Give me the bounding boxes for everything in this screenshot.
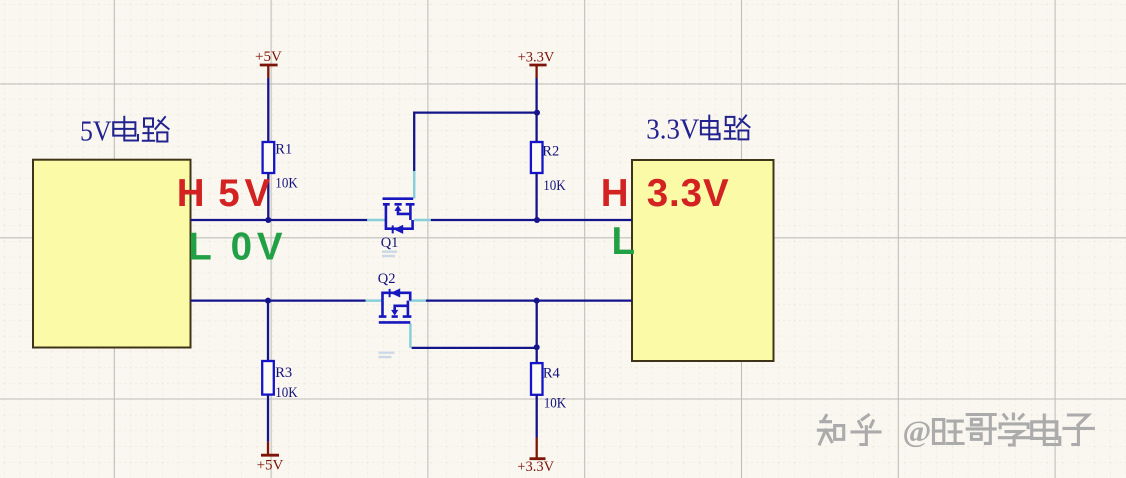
svg-text:L: L — [612, 220, 636, 263]
svg-text:+5V: +5V — [255, 49, 282, 65]
svg-text:10K: 10K — [275, 385, 298, 401]
svg-text:5V: 5V — [218, 172, 270, 215]
svg-text:Q2: Q2 — [378, 271, 396, 287]
wire: +3.3V rail down to R2 — [535, 78, 537, 142]
svg-text:5V: 5V — [80, 115, 112, 147]
wire highlight cyan segments top net — [367, 219, 430, 222]
Q2 faint part number — [379, 352, 395, 359]
svg-text:R1: R1 — [275, 142, 292, 158]
power +3.3V top symbol — [518, 49, 555, 78]
power +3.3V bottom symbol — [517, 438, 554, 475]
resistor R3 — [262, 361, 298, 401]
wire: bottom signal net, box1 to Q2 — [191, 299, 366, 301]
svg-text:+3.3V: +3.3V — [518, 49, 555, 65]
resistor R4 — [531, 363, 567, 412]
wire: Q1 gate to +3.3V rail — [414, 113, 537, 171]
power +5V top symbol — [255, 49, 282, 78]
wire: bottom net to R3 — [267, 301, 269, 361]
wire highlight cyan segments bottom net — [366, 299, 426, 302]
node junction R2/top net — [534, 217, 540, 223]
title 3.3V电路 — [646, 114, 749, 146]
node junction Q2 gate line / R4 — [534, 344, 540, 350]
svg-text:Q1: Q1 — [381, 235, 399, 251]
node junction R1/top net — [265, 217, 271, 223]
resistor R1 — [263, 142, 299, 192]
transistor Q1 (N-MOSFET) — [383, 199, 415, 234]
svg-text:+5V: +5V — [257, 457, 284, 473]
wire highlight cyan Q1 gate lead — [413, 171, 416, 199]
wire: +5V to R1 — [267, 78, 269, 142]
svg-text:0V: 0V — [231, 226, 283, 269]
svg-text:R4: R4 — [543, 366, 561, 382]
svg-text:10K: 10K — [275, 176, 298, 192]
3.3V circuit block (yellow box) — [632, 160, 774, 361]
svg-text:L: L — [188, 226, 212, 269]
power +5V bottom symbol — [257, 442, 284, 474]
annotation H 3.3V (red) — [601, 172, 729, 215]
annotation H 5V (red) — [177, 172, 271, 215]
svg-text:H: H — [601, 172, 629, 215]
wire: R2 to top net — [535, 173, 537, 220]
wire: R4 to +3.3V bottom — [536, 395, 538, 438]
wire: R3 to +5V bottom — [267, 395, 269, 442]
watermark 知乎 @旺哥学电子 — [818, 414, 1093, 445]
transistor Q2 (N-MOSFET, mirrored) — [379, 289, 412, 323]
Q2 channel arrow — [391, 310, 398, 316]
svg-text:10K: 10K — [543, 178, 566, 194]
Q1 channel arrow — [394, 205, 401, 211]
node junction R3/bottom net — [265, 298, 271, 304]
Q1 faint part number — [382, 251, 397, 258]
5V circuit block (yellow box) — [33, 160, 191, 348]
wire: top signal net, box1 to Q1 — [191, 219, 368, 221]
svg-text:3.3V: 3.3V — [646, 114, 699, 146]
svg-text:10K: 10K — [544, 396, 567, 412]
resistor R2 — [531, 142, 566, 194]
Q2 body diode arrow — [391, 288, 401, 297]
annotation L 0V (green) — [188, 226, 283, 269]
svg-text:H: H — [177, 172, 205, 215]
wire: R1 to top net — [267, 173, 269, 220]
Q1 body diode arrow — [394, 225, 404, 234]
svg-text:R3: R3 — [275, 365, 292, 381]
svg-text:+3.3V: +3.3V — [517, 459, 554, 475]
wire: top signal net, Q1 to box2 — [431, 219, 632, 221]
node junction R4/bottom net — [534, 298, 540, 304]
wire highlight cyan Q2 gate lead — [409, 324, 412, 348]
svg-text:3.3V: 3.3V — [647, 172, 729, 215]
svg-text:@: @ — [903, 414, 932, 449]
wire: Q2 gate to R4 node — [412, 347, 537, 349]
svg-text:R2: R2 — [542, 144, 559, 160]
title 5V电路 — [80, 115, 169, 147]
wire: bottom signal net, Q2 to box2 — [426, 299, 632, 301]
wire: bottom net to R4 node — [536, 301, 538, 364]
node junction gate line / +3.3V rail — [534, 110, 540, 116]
